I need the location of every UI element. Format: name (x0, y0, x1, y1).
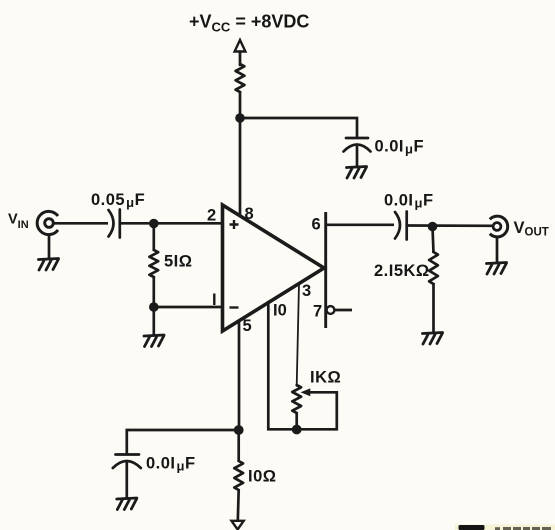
wire: resistor down to pin 8 of U1 (239, 91, 242, 217)
pin 7 open-circle terminal (327, 306, 335, 314)
wire: output bus (324, 212, 327, 328)
capacitor 0.01uF (output coupling) (395, 212, 407, 240)
watermark strip (cropped logo, bottom right) (455, 525, 555, 530)
wire: output node to 2.15K (433, 227, 434, 254)
wire: pin 6 to output coupling cap (326, 223, 394, 226)
svg-text:0.0IμF: 0.0IμF (375, 138, 425, 157)
ground (bypass cap) (347, 167, 367, 179)
wire: node down to 10 ohm (237, 430, 240, 462)
pot wiper arrow (302, 389, 310, 395)
svg-text:5: 5 (243, 317, 252, 335)
connector J2 VOUT (coax jack) (490, 216, 508, 237)
node: input / 51 ohm top (149, 219, 159, 229)
resistor 10 ohm (234, 461, 243, 490)
- input mark (230, 306, 239, 308)
ground (bottom cap) (117, 498, 137, 510)
svg-text:8: 8 (245, 205, 254, 223)
node: output junction (428, 222, 438, 232)
op-amp U1 (223, 205, 325, 331)
svg-text:+VCC = +8VDC: +VCC = +8VDC (189, 12, 309, 35)
wire: VOUT jack to ground (496, 238, 499, 264)
+ input mark (230, 220, 239, 229)
capacitor 0.01uF (VCC bypass) (344, 138, 371, 152)
svg-text:IKΩ: IKΩ (310, 369, 341, 387)
output return arrow terminal (down) (232, 521, 244, 530)
svg-text:I0Ω: I0Ω (248, 468, 277, 486)
wire: bottom cap to ground (125, 462, 128, 499)
svg-text:2: 2 (207, 207, 216, 225)
svg-text:I: I (212, 291, 217, 309)
wire: pin 7 stub (335, 309, 353, 312)
svg-text:0.0IμF: 0.0IμF (146, 455, 196, 474)
wire: node to pin 1 (154, 306, 223, 309)
capacitor 0.01uF (bottom bypass) (113, 455, 141, 469)
node: VCC junction (235, 113, 245, 123)
wire: wiper return to pot bottom node (297, 392, 337, 429)
resistor 2.15K ohm (429, 252, 438, 284)
wire: VCC arrow to resistor (239, 52, 242, 66)
svg-text:7: 7 (313, 303, 322, 321)
wire: 51 ohm to ground (152, 276, 155, 336)
wire: VCC junction to bypass capacitor (240, 118, 357, 138)
wire: bypass cap to ground (356, 146, 359, 168)
ground (VIN jack) (39, 259, 59, 271)
ground (2.15K) (423, 333, 443, 345)
svg-text:0.0IμF: 0.0IμF (384, 192, 434, 211)
svg-text:3: 3 (302, 282, 311, 300)
wire: pin 3 down to pot top (thin) (297, 284, 299, 387)
node: pin 5 / 10 ohm junction (234, 425, 244, 435)
potentiometer 1K ohm body (292, 385, 301, 413)
wire: pin 10 down and right to pot node (268, 302, 296, 429)
resistor 51 ohm (149, 250, 158, 277)
wire: 10 ohm to bottom terminal (236, 489, 240, 521)
wire: VIN jack to ground (48, 235, 51, 260)
resistor (VCC feed, unlabeled) (236, 64, 245, 92)
wire: pot bottom to node (295, 412, 298, 429)
wire: output cap to VOUT jack (407, 224, 492, 227)
wire: pin 5 down to bottom node (238, 321, 241, 431)
wire: VIN jack to coupling cap (54, 222, 109, 225)
wire: node left and down to bottom bypass cap (127, 430, 239, 453)
wire: 2.15K to ground (432, 283, 435, 334)
ground (VOUT jack) (487, 263, 507, 275)
ground (51 ohm) (144, 335, 164, 347)
wire: coupling cap to pin 2 (120, 222, 223, 225)
svg-text:6: 6 (312, 216, 321, 234)
svg-text:5IΩ: 5IΩ (164, 253, 193, 271)
svg-text:0.05μF: 0.05μF (91, 191, 145, 210)
capacitor 0.05uF (input coupling) (109, 210, 120, 238)
wire: node down to 51 ohm (152, 224, 155, 252)
svg-text:2.I5KΩ: 2.I5KΩ (374, 262, 430, 280)
connector J1 VIN (coax jack) (37, 211, 58, 234)
svg-text:I0: I0 (273, 302, 287, 320)
node: pin 1 junction (149, 302, 159, 312)
node: pot / pin10 junction (292, 425, 302, 435)
+VCC supply arrow terminal (235, 40, 246, 52)
